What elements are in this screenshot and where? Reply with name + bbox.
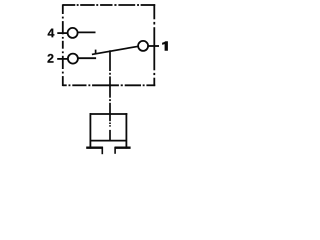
wire: terminal 4 inner contact lead (normally-open fixed contact) [77, 31, 95, 33]
plunger stem right wall [114, 147, 116, 154]
wire: terminal 4 outside stub [57, 32, 68, 34]
plunger flange right (mounting base) [115, 146, 131, 148]
terminal 1 circle (common) [138, 41, 148, 51]
contact tip tick on lever [95, 50, 97, 55]
plunger body (push-button housing outline) [90, 113, 128, 149]
plunger stem left wall [101, 147, 103, 155]
wire: terminal 1 outside stub [148, 45, 159, 47]
enclosure bottom edge (dash-dot case outline) [63, 84, 155, 86]
plunger inner line (button shoulder) [90, 140, 126, 142]
wire: terminal 2 inner contact lead (normally-closed fixed contact) [78, 57, 96, 59]
pin label 1 [162, 41, 168, 51]
wire: terminal 2 outside stub [57, 58, 68, 60]
switch lever (movable common contact arm) [92, 46, 138, 54]
terminal 2 circle [68, 54, 78, 64]
enclosure top edge (dash-dot case outline) [63, 4, 155, 6]
enclosure left edge (dash-dot case outline) [62, 4, 64, 86]
terminal 4 circle [68, 28, 78, 38]
actuator link (dash-dot mechanical linkage from lever to plunger) [109, 50, 111, 141]
enclosure right edge (dash-dot case outline) [153, 4, 155, 86]
pin label 4 [48, 29, 55, 38]
plunger flange left (mounting base) [86, 146, 103, 148]
pin label 2 [48, 54, 54, 63]
